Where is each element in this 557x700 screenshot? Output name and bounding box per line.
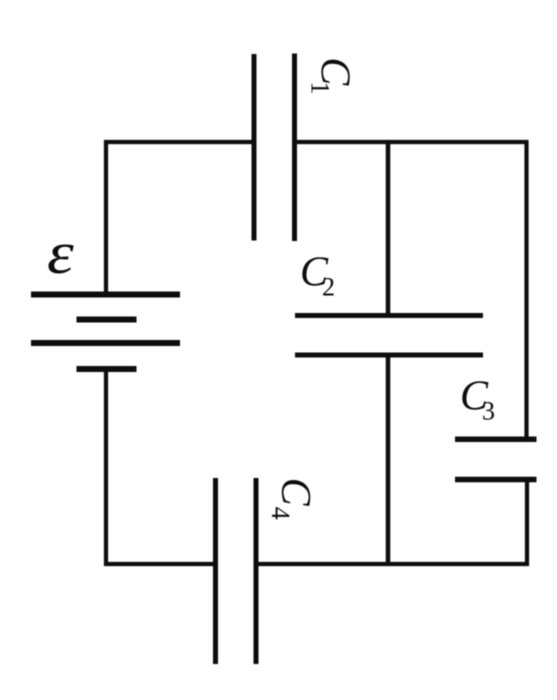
wire left lower (battery down to node D) [104,367,108,566]
wire bottom-left segment (node D to C4 left plate) [104,562,213,566]
wire right lower (C3 down to node E) [525,480,529,566]
capacitor C1 left plate [252,54,257,241]
capacitor C3 top plate [455,437,537,443]
wire top-left segment (node A to C1 left plate) [104,140,252,144]
wire middle lower (C2 down to bottom wire) [386,355,391,564]
capacitor C4 right plate [254,478,259,664]
battery U1 long plate 2 [31,340,180,346]
wire top-right segment (C1 right plate to node B) [297,140,528,144]
svg-text:C4: C4 [266,478,318,520]
capacitor C2 top plate [295,313,483,318]
battery U1 short plate 1 [77,317,137,323]
svg-text:ε: ε [47,220,75,287]
battery U1 (EMF source) long plate 1 [31,292,180,298]
capacitor C4 left plate [213,478,218,664]
capacitor C1 right plate [292,54,297,242]
capacitor C3 bottom plate [455,477,537,483]
svg-text:C3: C3 [460,374,495,426]
svg-text:C2: C2 [300,250,335,302]
wire left upper (node A down to battery) [104,140,108,296]
wire bottom-right segment (C4 right plate to node E) [259,562,530,566]
wire middle upper (top wire down to C2) [386,142,391,315]
wire right upper (node B down to C3) [524,140,528,439]
label C4 (rotated 90deg) [266,478,318,520]
capacitor C2 bottom plate [295,353,483,358]
svg-text:C1: C1 [306,57,358,94]
label C1 (rotated 90deg) [306,57,358,94]
battery U1 short plate 2 [77,366,137,372]
